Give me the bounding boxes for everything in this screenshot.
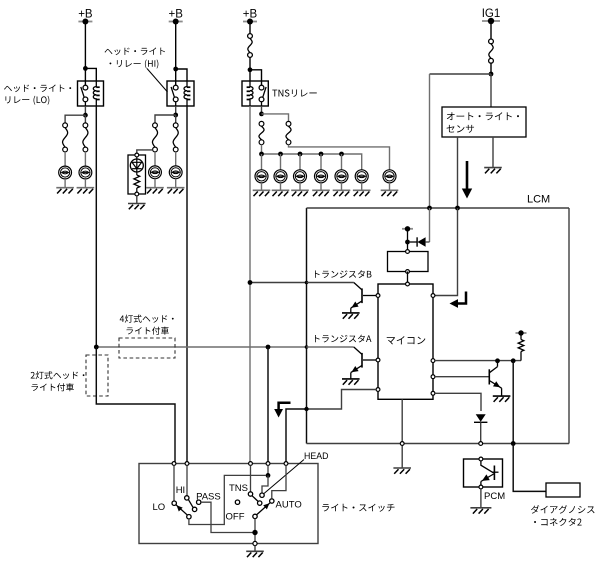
label light switch xyxy=(322,504,394,512)
transistor PCM xyxy=(480,461,498,485)
wire micom ground xyxy=(401,399,403,468)
wire micom to Q3 collector xyxy=(435,360,521,362)
junction LCM border B xyxy=(305,281,309,285)
junction LCM border diag wire xyxy=(511,441,516,446)
wire TNS coil to transistor B xyxy=(250,282,307,284)
contact OFF xyxy=(235,500,239,504)
bulb headlight HI left xyxy=(149,166,162,179)
arrow signal down (LCM to switch) xyxy=(274,403,290,418)
junction head feed tap xyxy=(266,345,271,350)
wire to LO bulb right xyxy=(84,152,86,166)
connector TNS right xyxy=(286,121,291,144)
wire relay HI coil down (to light switch) xyxy=(186,106,188,464)
contact PASS xyxy=(197,500,201,504)
ground TNS bulb 7 xyxy=(381,190,399,196)
diode D1 (to IG1 feed) xyxy=(410,237,430,246)
ground HI bulb right xyxy=(167,188,185,194)
blade LO xyxy=(175,503,188,515)
terminal LCM border micom ground xyxy=(400,442,404,446)
bulb TNS lamp 6 xyxy=(355,170,368,183)
wire AUTO to terminal xyxy=(272,465,286,498)
wire collector transistor B xyxy=(307,282,354,284)
box オート・ライト・センサ xyxy=(442,107,526,137)
wire to LO lamp left xyxy=(65,115,85,123)
wire to LO bulb left xyxy=(64,152,66,166)
label PCM xyxy=(484,491,505,502)
connector HI lamp right xyxy=(173,123,178,152)
resistor pull-up xyxy=(518,333,524,361)
wire base transistor A xyxy=(363,359,376,361)
contact HEAD xyxy=(260,493,264,497)
ground TNS bulb 2 xyxy=(272,190,290,196)
relay ヘッド・ライト・リレー(HI) xyxy=(167,81,194,106)
wire pivot LO/HI to common xyxy=(189,475,266,524)
junction relay LO coil tap xyxy=(83,66,88,71)
junction bus 3 xyxy=(298,152,303,157)
wire head feed down xyxy=(267,347,269,464)
contact HI-LO mid xyxy=(192,507,196,511)
bulb TNS lamp 3 xyxy=(294,170,307,183)
svg-text:AUTO: AUTO xyxy=(276,500,302,511)
wire sensor inside LCM xyxy=(435,208,458,296)
wire collector transistor A xyxy=(307,346,354,348)
junction IG1 branch xyxy=(489,72,494,77)
bulb headlight LO right xyxy=(79,166,92,179)
svg-text:+B: +B xyxy=(243,9,258,21)
wire to HI bulb right xyxy=(175,152,177,166)
bulb TNS lamp 5 xyxy=(335,170,348,183)
ground indicator xyxy=(128,204,146,210)
svg-text:LCM: LCM xyxy=(527,194,550,206)
junction resistor tap xyxy=(511,358,516,363)
wire switch ground xyxy=(254,545,256,551)
ground TNS bulb 4 xyxy=(312,190,330,196)
label diagnosis connector xyxy=(531,505,595,526)
terminal PCM bottom xyxy=(479,485,483,489)
ground transistor A xyxy=(342,379,360,385)
wire to relay LO coil xyxy=(85,68,96,81)
junction switch common xyxy=(252,530,257,535)
contact TNS xyxy=(248,492,252,496)
wire regulator to microcomputer xyxy=(407,272,409,285)
junction bus 4 xyxy=(319,152,324,157)
wire PCM ground xyxy=(480,489,482,508)
terminal switch HEAD wire xyxy=(266,462,270,466)
wire fuse to IG1 junction xyxy=(490,63,492,74)
contact pivot LO/HI xyxy=(187,515,191,519)
node +B (headlight relay HI feed) xyxy=(169,9,184,25)
dashed box 2-lamp xyxy=(86,355,108,396)
junction LCM top sensor xyxy=(455,206,460,211)
junction headlamp coil tap xyxy=(94,345,99,350)
terminal micom right3 xyxy=(431,375,435,379)
terminal switch TNS wire xyxy=(249,462,253,466)
wire to LO lamp right xyxy=(84,115,86,123)
wire switch LO stub xyxy=(173,465,175,501)
dashed box 4-lamp xyxy=(119,338,175,358)
bulb TNS lamp 2 xyxy=(274,170,287,183)
wire TNS right to bulb7 xyxy=(289,144,390,169)
blade HI xyxy=(188,500,193,508)
connector LO lamp left xyxy=(63,123,68,152)
arrow signal into microcomputer xyxy=(450,292,467,308)
ground HI bulb left xyxy=(146,188,164,194)
junction LCM top IG1 xyxy=(427,206,432,211)
label microcomputer xyxy=(387,336,426,344)
wire +B3 to fuse xyxy=(249,22,251,34)
wire emitter B to ground xyxy=(350,308,352,313)
label headlight relay HI xyxy=(105,48,165,69)
wire LO bulb left to ground xyxy=(64,179,66,188)
wire TNS switch out xyxy=(261,106,263,114)
wire +B2 down to relay HI xyxy=(175,22,177,86)
wire relay HI switch out xyxy=(175,106,177,115)
wire HI bulb left ground xyxy=(154,179,156,188)
node +B (TNS relay feed) xyxy=(243,9,258,25)
wire fuse to TNS junction xyxy=(249,57,251,69)
wire 2-lamp path down xyxy=(96,347,175,464)
wire base transistor B xyxy=(363,295,376,297)
box PCM xyxy=(464,459,503,487)
wire pivot AUTO down xyxy=(254,519,256,544)
transistor Q3 xyxy=(489,367,502,397)
junction TNS switch tap xyxy=(248,67,253,72)
wire LO bulb right to ground xyxy=(84,179,86,188)
box ダイアグノシス・コネクタ2 xyxy=(546,483,580,497)
wire to HI lamp left xyxy=(155,115,176,123)
contact LO xyxy=(172,501,176,505)
terminal indicator top xyxy=(135,153,139,157)
wire IG1 inside LCM xyxy=(429,208,431,242)
label 4灯式ヘッド・ライト付車 xyxy=(120,315,174,335)
wire diag connector down xyxy=(512,361,514,444)
transistor Q1 トランジスタA xyxy=(350,347,362,375)
terminal micom right2 xyxy=(431,359,435,363)
wire IG1 to auto light sensor xyxy=(490,74,492,107)
resistor indicator xyxy=(134,169,140,194)
ground microcomputer xyxy=(393,468,411,474)
wire TNS bulb 5 ground xyxy=(341,183,343,191)
junction relay HI coil tap xyxy=(173,67,178,72)
relay ヘッド・ライト・リレー(LO) xyxy=(78,81,104,106)
wire bus to TNS bulb 3 xyxy=(299,154,301,170)
wire to TNS switch xyxy=(250,70,262,85)
wire base Q3 xyxy=(435,376,489,378)
wire 4-lamp line to transistor A xyxy=(96,346,306,348)
wire to relay HI coil xyxy=(176,69,187,81)
wire relay LO coil down (to light switch) xyxy=(95,106,97,347)
wire micom to diode D2 xyxy=(435,393,481,411)
junction bus 5 xyxy=(339,152,344,157)
wire head feed inside xyxy=(267,465,269,475)
wire indicator tap xyxy=(137,150,153,155)
ground sensor xyxy=(484,168,502,174)
box high-beam indicator xyxy=(128,155,146,194)
terminal switch ground xyxy=(253,541,257,545)
wire emitter A to ground xyxy=(350,373,352,379)
bulb TNS lamp 7 xyxy=(383,170,396,183)
terminal switch HI wire xyxy=(185,462,189,466)
ground TNS bulb 1 xyxy=(253,190,271,196)
label LO xyxy=(153,502,166,513)
fuse F1 (TNS feed) xyxy=(248,34,253,58)
junction LCM border A xyxy=(305,345,309,349)
leader HEAD xyxy=(264,460,304,494)
blade TNS xyxy=(252,496,258,502)
label トランジスタB xyxy=(315,270,372,278)
box ライト・スイッチ xyxy=(139,464,318,544)
wire bus to TNS bulb 4 xyxy=(320,154,322,170)
svg-text:TNS: TNS xyxy=(229,483,248,494)
fuse F2 (IG1) xyxy=(489,39,494,63)
connector HI lamp left xyxy=(152,123,157,152)
wire to HI lamp right xyxy=(175,115,177,123)
ground PCM xyxy=(470,508,491,514)
wire PASS circuit xyxy=(201,502,253,532)
blade AUTO xyxy=(257,501,272,515)
junction TNS coil tap B xyxy=(248,280,253,285)
terminal micom left3 xyxy=(376,388,380,392)
terminal indicator bottom xyxy=(135,192,139,196)
terminal micom right4 xyxy=(431,391,435,395)
label トランジスタA xyxy=(315,335,371,343)
label auto light sensor xyxy=(447,112,519,132)
contact HI xyxy=(185,496,189,500)
wire TNS coil down (to light switch) xyxy=(249,106,251,464)
wire TNS bulb 4 ground xyxy=(320,183,322,191)
wire TNS bulb 3 ground xyxy=(299,183,301,191)
bulb TNS lamp 1 xyxy=(255,170,268,183)
wire IG1 branch to LCM xyxy=(430,74,492,208)
wire micom to light switch AUTO xyxy=(286,390,376,464)
ground light switch xyxy=(246,551,264,557)
wire to HI bulb left xyxy=(154,152,156,166)
label TNS relay xyxy=(272,89,316,96)
svg-text:+B: +B xyxy=(169,9,184,21)
label LCM xyxy=(527,194,550,206)
label HI xyxy=(176,485,186,496)
label PASS xyxy=(196,492,221,503)
svg-text:IG1: IG1 xyxy=(482,8,501,20)
terminal micom right1 xyxy=(431,294,435,298)
terminal micom left2 xyxy=(376,358,380,362)
contact TNS mid xyxy=(258,501,262,505)
box voltage regulator xyxy=(388,252,429,272)
ground transistor B xyxy=(342,313,360,319)
wire to diagnosis connector xyxy=(513,444,546,492)
label TNS xyxy=(229,483,248,494)
junction Q3 collector xyxy=(495,358,500,363)
contact pivot AUTO xyxy=(253,514,257,518)
wire indicator ground xyxy=(136,196,138,204)
terminal switch AUTO wire xyxy=(284,462,288,466)
wire IG1 to fuse xyxy=(490,21,492,39)
terminal micom top xyxy=(406,282,410,286)
junction relay HI lamps xyxy=(173,113,178,118)
svg-text:PASS: PASS xyxy=(196,492,221,503)
junction TNS lamp feed xyxy=(259,112,264,117)
wire TNS bus xyxy=(262,154,362,170)
label HEAD xyxy=(304,451,328,461)
wire HI bulb right ground xyxy=(175,179,177,188)
terminal micom left1 xyxy=(376,294,380,298)
junction bus 1 xyxy=(259,152,264,157)
wire switch HI stub xyxy=(186,465,188,495)
wire power to junction xyxy=(407,229,409,252)
terminal regulator top xyxy=(406,250,410,254)
terminal switch LO wire xyxy=(172,462,176,466)
connector TNS left xyxy=(259,121,264,144)
contact AUTO xyxy=(270,499,274,503)
wire TNS bulb 1 ground xyxy=(261,183,263,191)
svg-text:HI: HI xyxy=(176,485,186,496)
node power (pull-up) xyxy=(516,330,527,335)
label AUTO xyxy=(276,500,302,511)
svg-text:+B: +B xyxy=(78,9,93,21)
ground TNS bulb 6 xyxy=(353,190,371,196)
junction head feed xyxy=(266,473,271,478)
svg-text:HEAD: HEAD xyxy=(304,451,328,461)
bulb TNS lamp 4 xyxy=(315,170,328,183)
LED high-beam indicator xyxy=(130,157,143,172)
wire bus to TNS bulb 1 xyxy=(261,154,263,170)
wire TNS bulb 7 ground xyxy=(389,183,391,191)
junction bus 2 xyxy=(278,152,283,157)
connector LO lamp right xyxy=(83,123,88,152)
wire bus to TNS bulb 5 xyxy=(341,154,343,170)
wire TNS bus left xyxy=(261,144,263,154)
junction relay LO lamps xyxy=(83,113,88,118)
terminal LCM border PCM wire xyxy=(479,442,483,446)
junction LCM border exit xyxy=(304,407,308,411)
wire switch TNS stub xyxy=(250,465,252,491)
wire head step to HEAD contact xyxy=(262,475,268,493)
box マイコン microcomputer xyxy=(378,284,433,399)
transistor Q2 トランジスタB xyxy=(350,283,362,311)
arrow signal down (sensor to LCM) xyxy=(462,161,472,199)
label headlight relay LO xyxy=(4,85,71,105)
wire TNS bulb 6 ground xyxy=(361,183,363,191)
ground TNS bulb 3 xyxy=(291,190,309,196)
wire to TNS connector right xyxy=(262,114,289,122)
node IG1 xyxy=(482,8,501,24)
wire relay LO switch out xyxy=(84,106,86,115)
bulb headlight LO left xyxy=(59,166,72,179)
wire bus to TNS bulb 2 xyxy=(280,154,282,170)
leader headlight relay HI xyxy=(147,69,168,93)
svg-text:LO: LO xyxy=(153,502,166,513)
terminal PCM top xyxy=(479,457,483,461)
ground TNS bulb 5 xyxy=(333,190,351,196)
terminal regulator bottom xyxy=(406,270,410,274)
label 2灯式ヘッド・ライト付車 xyxy=(31,371,85,391)
junction regulator/diode xyxy=(405,240,410,245)
relay TNSリレー xyxy=(242,81,268,106)
node +B (headlight relay LO feed) xyxy=(78,9,93,25)
box LCM xyxy=(307,208,570,444)
label OFF xyxy=(226,512,245,523)
wire Q3 collector down xyxy=(497,361,499,367)
ground transistor Q3 xyxy=(493,396,511,402)
wire +B1 down to relay LO xyxy=(84,22,86,86)
node power (regulator) xyxy=(402,226,413,231)
ground LO bulb right xyxy=(77,188,95,194)
diode D2 (to PCM) xyxy=(474,414,487,443)
svg-text:OFF: OFF xyxy=(226,512,245,523)
bulb headlight HI right xyxy=(169,166,182,179)
ground LO bulb left xyxy=(56,188,74,194)
svg-text:PCM: PCM xyxy=(484,491,505,502)
wire sensor ground xyxy=(492,137,494,168)
wire TNS bulb 2 ground xyxy=(280,183,282,191)
wire TNS coil feed xyxy=(249,70,251,81)
wire sensor output to LCM xyxy=(457,137,459,208)
